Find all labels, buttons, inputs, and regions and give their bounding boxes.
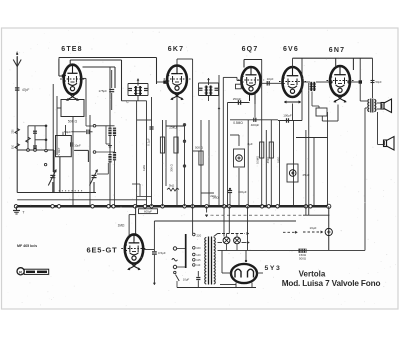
svg-text:400pF: 400pF [251,123,260,127]
svg-text:MF 465 kc/s: MF 465 kc/s [17,244,37,248]
svg-text:10μF: 10μF [183,278,190,282]
svg-text:0.5μF: 0.5μF [158,251,166,255]
svg-text:0.5MΩ: 0.5MΩ [256,156,260,164]
svg-text:6V6: 6V6 [283,46,299,53]
svg-text:500Ω: 500Ω [299,256,307,260]
svg-text:5Y3: 5Y3 [265,265,282,272]
svg-text:220: 220 [197,234,202,238]
svg-text:6Q7: 6Q7 [242,46,259,53]
svg-text:510: 510 [12,144,15,149]
svg-text:1MΩ: 1MΩ [212,196,219,200]
svg-text:3kΩ: 3kΩ [169,184,175,188]
svg-text:6N7: 6N7 [329,47,345,54]
svg-text:450Ω: 450Ω [266,157,270,164]
svg-text:250pF: 250pF [233,97,242,101]
svg-text:500 Ω: 500 Ω [195,146,204,150]
svg-text:16μF: 16μF [310,226,317,230]
svg-text:140: 140 [196,254,201,257]
svg-text:600pF: 600pF [144,210,152,214]
svg-text:R: R [19,269,22,274]
svg-text:100Ω: 100Ω [277,157,281,164]
svg-text:1MΩ: 1MΩ [142,165,146,171]
svg-text:230: 230 [12,129,15,134]
svg-text:100μF: 100μF [283,114,292,118]
svg-text:10pF: 10pF [267,77,274,81]
svg-text:6E5-GT: 6E5-GT [86,246,117,255]
svg-text:100μF: 100μF [238,190,247,194]
svg-text:8μF: 8μF [248,142,253,146]
svg-text:50pF: 50pF [376,80,382,84]
svg-text:Vertola: Vertola [299,270,326,279]
svg-text:0.1μF: 0.1μF [147,138,151,146]
svg-text:6K7: 6K7 [168,46,184,53]
svg-text:160: 160 [196,247,201,250]
svg-text:300 Ω: 300 Ω [170,164,174,172]
svg-text:0.5MΩ: 0.5MΩ [233,121,243,125]
svg-text:110: 110 [196,264,201,267]
svg-text:175pF: 175pF [98,89,107,93]
svg-text:10pF: 10pF [74,143,81,147]
svg-text:47pF: 47pF [22,88,29,92]
svg-text:Mod. Luisa 7 Valvole Fono: Mod. Luisa 7 Valvole Fono [282,279,381,288]
svg-text:V DET: V DET [57,147,61,155]
svg-text:125: 125 [196,259,201,262]
